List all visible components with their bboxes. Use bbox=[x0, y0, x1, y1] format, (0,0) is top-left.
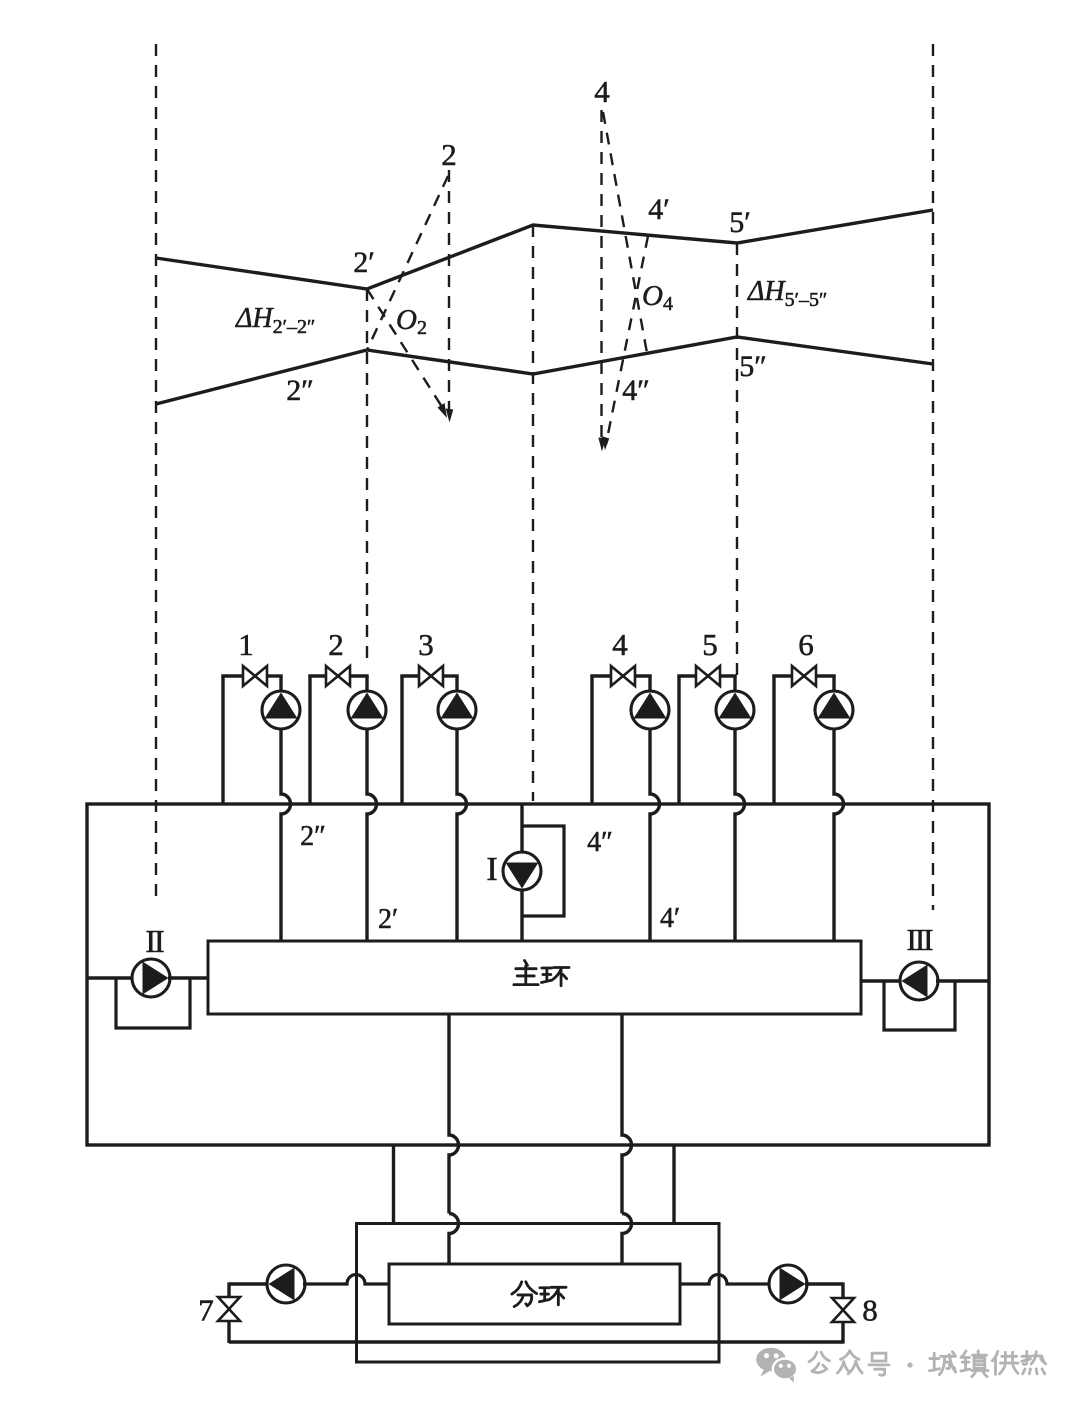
svg-text:4: 4 bbox=[594, 74, 610, 109]
svg-text:4′: 4′ bbox=[660, 903, 680, 934]
svg-text:2: 2 bbox=[328, 627, 344, 662]
pump I bbox=[503, 852, 541, 890]
guide dashed line left bbox=[155, 44, 157, 897]
svg-text:2′: 2′ bbox=[353, 246, 375, 279]
svg-text:6: 6 bbox=[798, 627, 814, 662]
branch 3 suction pipe bbox=[400, 676, 403, 804]
svg-text:3: 3 bbox=[418, 627, 434, 662]
pump II bypass loop bbox=[116, 978, 190, 1028]
branch 6 pipe valve to pump bbox=[816, 674, 836, 677]
pump II bbox=[132, 959, 170, 997]
valve 4 bbox=[611, 666, 623, 686]
dashed slant from label 2 to node 2&quot; bbox=[367, 176, 448, 350]
watermark text gongzhonghao chengzhen gongre bbox=[809, 1352, 829, 1372]
pump 7 suction pipe bbox=[229, 1282, 269, 1285]
right supply pipe main ring to sub ring (hops) bbox=[622, 1014, 632, 1214]
guide dashed line center bbox=[532, 225, 534, 801]
text fen huan (sub ring) bbox=[512, 1282, 537, 1307]
valve 2 bbox=[326, 666, 338, 686]
valve 6 bbox=[792, 666, 804, 686]
main ring box (zhu huan) bbox=[208, 941, 861, 1014]
pump 1 bbox=[262, 691, 300, 729]
right return pipe between rings bbox=[672, 1145, 675, 1224]
guide dashed line right bbox=[932, 44, 934, 910]
dashed slant from label 4 to return line bbox=[603, 112, 647, 353]
dashed slant from supply line down-left with arrow bbox=[606, 236, 648, 444]
pump 7 pipe with hop into sub ring bbox=[303, 1275, 389, 1285]
pump 8 discharge pipe bbox=[805, 1282, 843, 1285]
pump 5 bbox=[716, 691, 754, 729]
sub ring outer rectangle bbox=[357, 1224, 720, 1363]
main network outer ring rectangle bbox=[87, 804, 989, 1145]
svg-text:2′: 2′ bbox=[378, 904, 398, 935]
svg-text:I: I bbox=[486, 851, 497, 888]
pump 8 pipe with hop out of sub ring bbox=[680, 1275, 771, 1285]
pump I pipe bbox=[520, 804, 523, 854]
pump III bbox=[900, 962, 938, 1000]
guide dashed line node 2 bbox=[366, 289, 368, 664]
valve 8 drop pipe bbox=[841, 1282, 844, 1298]
branch 6 discharge pipe with hop over ring bbox=[834, 728, 844, 941]
pump 8 bbox=[769, 1265, 807, 1303]
valve 5 bbox=[696, 666, 708, 686]
svg-text:4: 4 bbox=[612, 627, 628, 662]
pump II discharge pipe bbox=[168, 976, 208, 979]
pump I bypass loop bbox=[522, 826, 564, 916]
branch 1 pipe valve to pump bbox=[267, 674, 283, 677]
valve 3 bbox=[419, 666, 431, 686]
sub ring box (fen huan) bbox=[389, 1264, 680, 1324]
pipe below valve 7 bbox=[227, 1321, 230, 1343]
svg-text:2″: 2″ bbox=[286, 374, 314, 407]
valve 7 drop pipe bbox=[227, 1282, 230, 1297]
pump III bypass loop bbox=[884, 981, 955, 1030]
branch 1 discharge pipe with hop over ring bbox=[281, 728, 291, 941]
branch 2 discharge pipe with hop over ring bbox=[367, 728, 377, 941]
guide dashed line node 5 bbox=[736, 243, 738, 676]
svg-text:4′: 4′ bbox=[648, 193, 670, 226]
pipe below valve 8 bbox=[841, 1322, 844, 1344]
pump 7 bbox=[267, 1265, 305, 1303]
branch 2 pipe valve to pump bbox=[350, 674, 369, 677]
pump 2 bbox=[348, 691, 386, 729]
branch 1 suction pipe bbox=[221, 676, 224, 804]
dashed vertical through node 4 with arrow bbox=[600, 110, 602, 444]
valve 8 bbox=[832, 1298, 854, 1310]
svg-text:III: III bbox=[907, 922, 934, 957]
branch 4 pipe valve to pump bbox=[635, 674, 652, 677]
supply head polyline bbox=[156, 210, 933, 289]
branch 5 discharge pipe with hop over ring bbox=[735, 728, 745, 941]
dashed slant from node 2&apos; down-right with arrow bbox=[367, 289, 444, 410]
branch 2 suction pipe bbox=[308, 676, 311, 804]
branch 4 suction pipe bbox=[590, 676, 593, 804]
bottom loop pipe bbox=[229, 1340, 843, 1343]
svg-text:2: 2 bbox=[441, 137, 457, 172]
text zhu huan (main ring) bbox=[514, 960, 538, 984]
branch 6 suction pipe bbox=[772, 676, 775, 804]
left supply pipe main ring to sub ring (hops) bbox=[449, 1014, 459, 1214]
branch 5 pipe valve to pump bbox=[720, 674, 737, 677]
pump II suction pipe bbox=[87, 976, 134, 979]
pump 6 bbox=[815, 691, 853, 729]
svg-text:5: 5 bbox=[702, 627, 718, 662]
branch 4 discharge pipe with hop over ring bbox=[650, 728, 660, 941]
svg-text:1: 1 bbox=[238, 627, 254, 662]
pump III suction pipe bbox=[861, 979, 902, 982]
svg-text:2″: 2″ bbox=[300, 821, 326, 852]
return head polyline bbox=[156, 337, 933, 404]
watermark wechat logo bbox=[756, 1348, 797, 1383]
pump 3 bbox=[438, 691, 476, 729]
left return pipe between rings bbox=[392, 1145, 395, 1224]
branch 3 pipe valve to pump bbox=[443, 674, 459, 677]
svg-text:II: II bbox=[145, 923, 164, 959]
branch 5 suction pipe bbox=[677, 676, 680, 804]
branch 3 discharge pipe with hop over ring bbox=[457, 728, 467, 941]
svg-text:4″: 4″ bbox=[587, 827, 613, 858]
svg-text:5″: 5″ bbox=[739, 350, 767, 383]
svg-text:8: 8 bbox=[862, 1293, 878, 1328]
svg-text:5′: 5′ bbox=[729, 206, 751, 239]
valve 1 bbox=[243, 666, 255, 686]
svg-text:7: 7 bbox=[198, 1293, 214, 1328]
dashed vertical through node 2 with arrow bbox=[448, 170, 450, 416]
pump 4 bbox=[631, 691, 669, 729]
pump III discharge pipe bbox=[936, 979, 989, 982]
valve 7 bbox=[218, 1297, 240, 1309]
svg-text:4″: 4″ bbox=[622, 374, 650, 407]
